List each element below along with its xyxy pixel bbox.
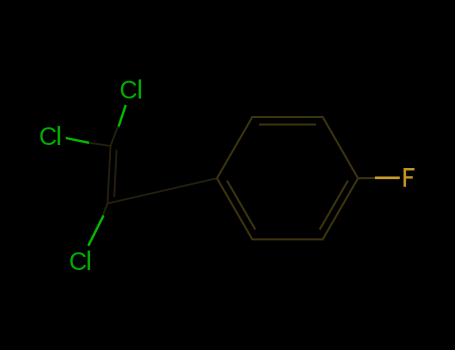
svg-text:C: C xyxy=(120,77,138,105)
svg-text:C: C xyxy=(39,123,57,151)
svg-text:C: C xyxy=(69,248,87,276)
